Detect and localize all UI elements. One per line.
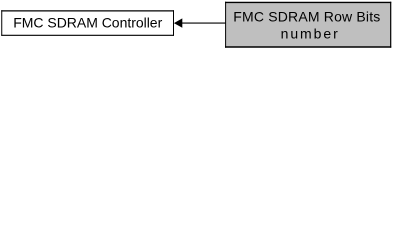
svg-text:FMC SDRAM Row Bits: FMC SDRAM Row Bits xyxy=(233,9,380,25)
svg-text:FMC SDRAM Controller: FMC SDRAM Controller xyxy=(13,15,162,31)
